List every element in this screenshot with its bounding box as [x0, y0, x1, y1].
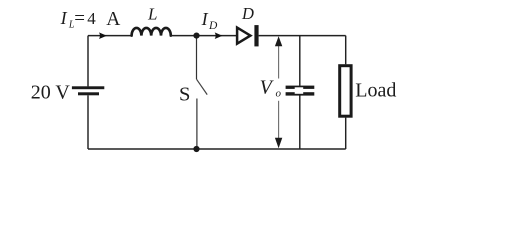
svg-text:o: o: [276, 88, 282, 100]
wire top rail left segment: [88, 35, 132, 37]
current arrow IL on top rail: [99, 32, 107, 39]
node A (switch top junction): [193, 33, 199, 39]
wire top rail right segment: [259, 35, 346, 37]
diode D triangle: [237, 28, 250, 44]
diode D cathode bar: [254, 25, 258, 46]
node B (switch bottom junction): [193, 146, 199, 152]
svg-text:Load: Load: [355, 80, 396, 102]
svg-text:I: I: [201, 9, 209, 29]
svg-text:S: S: [179, 83, 190, 105]
capacitor center white notch: [295, 87, 304, 94]
svg-text:4: 4: [87, 9, 96, 28]
wire right vertical below load: [345, 118, 347, 149]
wire bottom rail: [88, 148, 346, 150]
Vo arrowhead up: [275, 36, 282, 46]
svg-text:D: D: [208, 20, 218, 32]
load rectangle: [340, 66, 351, 117]
svg-text:A: A: [106, 9, 120, 30]
Vo arrowhead down: [275, 138, 282, 149]
wire switch branch lower: [196, 99, 198, 150]
battery 20V top plate: [72, 86, 104, 89]
svg-text:L: L: [147, 5, 157, 24]
svg-text:20 V: 20 V: [31, 82, 71, 104]
Vo measure arrow shaft lower: [278, 101, 280, 140]
current arrow ID on top rail: [215, 32, 223, 39]
svg-text:I: I: [60, 8, 68, 28]
capacitor bottom plate: [286, 92, 315, 95]
wire right vertical above load: [345, 36, 347, 65]
wire switch branch upper: [196, 36, 198, 80]
svg-text:=: =: [74, 8, 85, 29]
label Vo: [259, 79, 282, 101]
wire top-left vertical (battery to top rail): [87, 36, 89, 87]
wire left vertical below battery: [87, 95, 89, 149]
Vo measure arrow shaft upper: [278, 44, 280, 79]
wire top rail middle segment: [171, 35, 236, 37]
inductor L: [132, 28, 171, 36]
svg-text:D: D: [241, 4, 254, 23]
wire capacitor branch upper: [299, 36, 301, 86]
switch S blade: [197, 79, 208, 94]
wire capacitor branch lower: [299, 95, 301, 149]
capacitor top plate: [286, 86, 315, 89]
battery 20V bottom plate: [78, 92, 99, 95]
